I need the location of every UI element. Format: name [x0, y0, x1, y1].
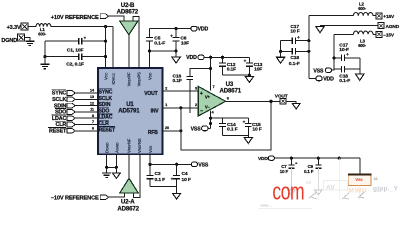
node C17 rail junction [307, 39, 310, 42]
svg-text:−: − [200, 108, 203, 114]
wire INV pin1 to U3 inverting input [163, 107, 199, 109]
svg-text:VDD: VDD [323, 77, 334, 83]
svg-text:16: 16 [374, 177, 378, 181]
wire U2-B output to VREFPF [128, 35, 130, 68]
node C14 rail junction [209, 117, 212, 120]
svg-text:10F: 10F [181, 41, 189, 47]
wire C7 to ground (faint) [290, 168, 292, 190]
svg-text:VDD: VDD [186, 55, 197, 61]
ground (AGND right triangle) [316, 27, 324, 33]
node RFB feedback junction [179, 129, 182, 132]
svg-text:DGND: DGND [104, 142, 109, 153]
wire VOUT pin2 to U3 pin3 [163, 90, 199, 92]
wire VCC vertical [105, 27, 107, 68]
svg-text:DGND: DGND [1, 38, 17, 44]
svg-text:Vss: Vss [355, 177, 363, 182]
watermark faint footer line [258, 208, 312, 210]
ground (C17b/C18b triangle) [356, 74, 365, 80]
pin label LDAC (inside U1) [99, 114, 113, 121]
capacitor C6 [170, 29, 189, 51]
wire C13 to ground [248, 75, 250, 76]
ground (C5/C6 triangle) [172, 57, 181, 63]
wire RESET to U1 [75, 130, 98, 132]
wire to U5 box [359, 158, 361, 174]
svg-text:CLR: CLR [99, 121, 110, 127]
wire C6 to ground [175, 51, 177, 57]
ground (C9 faint) [315, 190, 323, 195]
connector -15V [376, 31, 395, 38]
connector VSS right [313, 68, 331, 75]
wire DGND-AGND tie [107, 166, 117, 168]
wire DGND pin down [106, 154, 108, 173]
pin label SDIN (inside U1) [99, 102, 111, 108]
wire U3 V+ supply [210, 57, 212, 90]
connector +15V [376, 13, 395, 20]
svg-text:U1: U1 [126, 102, 134, 108]
connector VDD top [191, 26, 209, 32]
wire VOUT to ground stub [286, 101, 296, 103]
svg-text:+10V REFERENCE: +10V REFERENCE [51, 15, 99, 21]
wire VSS vertical (right) [333, 34, 335, 69]
svg-text:0.1-F: 0.1-F [154, 41, 165, 47]
capacitor C2 [45, 53, 106, 67]
wire -15V rail to VSS vertical [334, 33, 353, 35]
svg-text:600-: 600- [358, 6, 367, 11]
wire AGND pin down [115, 154, 117, 173]
capacitor C7 [280, 158, 298, 174]
inductor L1 [36, 24, 51, 37]
svg-text:C4: C4 [182, 171, 188, 177]
pin label RESET (inside U1) [99, 127, 117, 134]
svg-text:10 F: 10 F [290, 29, 299, 35]
node C13 bottom junction [248, 74, 251, 77]
node SCLK input [52, 97, 75, 103]
wire VSS rail [150, 163, 191, 165]
wire U5 branch [338, 158, 340, 179]
wire +3.3V to L1 [29, 26, 36, 28]
capacitor C12 [219, 57, 236, 75]
node V+ junction [209, 56, 212, 59]
svg-text:C1, 10F: C1, 10F [67, 47, 84, 53]
svg-text:LDAC: LDAC [99, 115, 113, 121]
node VSS branch junction [209, 122, 212, 125]
watermark faint box [324, 181, 348, 191]
capacitor C18 (+15V pair) [281, 48, 309, 67]
node CLR input [55, 121, 75, 128]
svg-text:gjpp._Y: gjpp._Y [373, 186, 399, 193]
connector -10V REFERENCE [51, 195, 109, 202]
svg-text:VREFPF: VREFPF [126, 72, 131, 87]
svg-text:–15V: –15V [383, 33, 395, 39]
ground (DGND bar) [102, 173, 111, 177]
capacitor C18 (-15V pair) [334, 66, 360, 84]
svg-text:C3: C3 [155, 171, 161, 177]
wire reference to U2-B inverting input [109, 16, 124, 21]
node VSS rail junction [148, 163, 151, 166]
wire C14-C15 top rail [211, 117, 249, 119]
wire CLR to U1 [75, 124, 98, 126]
connector VDD right [316, 76, 334, 83]
svg-text:VSS: VSS [148, 145, 153, 153]
svg-text:RFB: RFB [148, 130, 158, 136]
connector VDD mid [186, 55, 204, 61]
svg-text:0.1 F: 0.1 F [304, 169, 314, 174]
node AGND junction [115, 166, 118, 169]
node LDAC input [51, 115, 75, 122]
inductor L2 [353, 2, 373, 16]
node C9 junction [317, 157, 320, 160]
svg-text:10 F: 10 F [280, 169, 289, 174]
connector +10V REFERENCE [51, 14, 109, 22]
wire C5-C6 bottom rail [149, 50, 176, 52]
capacitor C15 [243, 118, 262, 135]
capacitor C1 [45, 36, 106, 54]
capacitor C5 [146, 29, 165, 68]
wire VSS stub [208, 127, 211, 129]
ground (C4 triangle) [173, 193, 181, 199]
connector VSS lower [191, 162, 209, 169]
svg-text:600-: 600- [38, 32, 47, 37]
svg-text:VREFPS: VREFPS [137, 72, 142, 87]
svg-text:VSS: VSS [198, 163, 209, 169]
op-amp U2-B [117, 2, 139, 35]
svg-text:ʌᴠ: ʌᴠ [306, 180, 312, 186]
svg-text:SCLK: SCLK [99, 96, 113, 102]
wire VREFNS feedback to U2-A noninverting input [134, 154, 141, 197]
svg-text:C18: C18 [290, 55, 299, 61]
node C4 top junction [175, 163, 178, 166]
wire C3-C4 bottom rail [150, 186, 177, 188]
wire C17b/C18b ground leg [359, 58, 361, 74]
pin label SYNC (inside U1) [99, 89, 113, 96]
svg-text:VREFNS: VREFNS [137, 138, 142, 153]
watermark red com text [272, 179, 304, 205]
node C6 bottom junction [175, 49, 178, 52]
pin label CLR (inside U1) [99, 120, 110, 127]
svg-text:U2-A: U2-A [121, 199, 135, 206]
node C1-VCC junction [104, 40, 107, 43]
node C18 left junction [279, 50, 282, 53]
svg-text:V−: V− [205, 104, 211, 109]
pin label SDO (inside U1) [99, 108, 110, 115]
regulator U5 (watermarked box) [348, 174, 372, 185]
node VOUT feedback junction [269, 100, 272, 103]
wire reference to U2-A inverting input [109, 193, 125, 197]
svg-text:RESET: RESET [99, 127, 117, 133]
ground (VOUT triangle) [292, 104, 300, 109]
wire L3 to -15V connector [373, 33, 376, 35]
wire VSS right stub [332, 69, 335, 70]
capacitor C4 [171, 164, 191, 193]
svg-text:VDD: VDD [147, 72, 152, 80]
wire VDD bottom rail [274, 157, 359, 159]
node DGND junction [105, 166, 108, 169]
svg-text:0.1F: 0.1F [173, 78, 182, 84]
capacitor C13 [244, 57, 263, 75]
svg-text:+: + [200, 91, 203, 97]
svg-text:INV: INV [151, 108, 160, 114]
wire U3 output to VOUT connector [226, 100, 281, 102]
svg-text:–10V REFERENCE: –10V REFERENCE [51, 195, 99, 201]
svg-text:AGND: AGND [386, 24, 400, 30]
wire LDAC to U1 [75, 117, 98, 119]
wire C17/C18 ground leg [280, 41, 282, 58]
svg-text:+15V: +15V [383, 14, 395, 20]
svg-text:10-F: 10-F [339, 47, 349, 53]
node C1-C2 ground junction [43, 55, 46, 58]
connector VDD bottom [258, 156, 274, 162]
svg-text:AD8672: AD8672 [117, 9, 139, 16]
svg-text:VSS: VSS [191, 126, 202, 132]
capacitor C14 [219, 118, 237, 135]
capacitor C17 (+15V pair) [281, 24, 309, 44]
svg-text:+3.3V: +3.3V [7, 25, 21, 31]
node VCC junction [104, 25, 107, 28]
svg-text:VSS: VSS [313, 68, 324, 74]
op-amp U3 AD8671 [198, 81, 242, 116]
wire C1/C2 ground leg [44, 41, 46, 64]
connector DGND [1, 34, 24, 44]
node C17b rail junction [332, 56, 335, 59]
wire VSS pin down [149, 154, 151, 175]
node SDIN input [54, 103, 75, 109]
capacitor C3 [147, 171, 166, 187]
wire VDD top rail [149, 28, 191, 30]
connector VSS mid [191, 126, 208, 133]
node SDO input [55, 109, 75, 116]
watermark faint gray symbols [309, 192, 364, 199]
svg-text:0.1F: 0.1F [227, 67, 236, 73]
wire SDO to U1 [75, 111, 98, 113]
svg-text:SYNC: SYNC [52, 91, 67, 97]
ground (C13 triangle) [245, 77, 253, 83]
wire L1 to VCC/IOVCC rail [51, 26, 113, 28]
node C2-VCC junction [104, 55, 107, 58]
svg-text:0.1 F: 0.1 F [227, 127, 238, 133]
svg-text:AD8672: AD8672 [117, 206, 139, 213]
svg-text:ᴡᴡᴡ. ..: ᴡᴡᴡ. .. [260, 204, 272, 208]
svg-text:SDO: SDO [99, 108, 110, 114]
svg-text:AD8671: AD8671 [220, 87, 242, 94]
wire AGND rail [320, 25, 378, 27]
ground (AGND triangle) [113, 173, 121, 178]
wire C9 to ground (faint) [317, 168, 319, 190]
ground (C15 triangle) [244, 138, 252, 144]
node U5 junction [338, 157, 341, 160]
node INV feedback junction [179, 106, 182, 109]
node C6 top junction [175, 27, 178, 30]
capacitor C9 [304, 158, 321, 174]
svg-text:SYNC: SYNC [99, 90, 113, 96]
wire +15V rail to VDD vertical [309, 15, 354, 17]
svg-text:VDD: VDD [258, 156, 268, 162]
ground (DGND bar) [25, 41, 34, 45]
node C7 junction [290, 157, 293, 160]
node C12 junction [221, 56, 224, 59]
node RESET input [48, 128, 75, 135]
svg-text:SCLK: SCLK [52, 97, 66, 103]
ground (C17/C18 triangle) [277, 57, 285, 63]
op-amp U2-A [117, 178, 139, 212]
svg-text:0.1-F: 0.1-F [289, 61, 300, 67]
svg-text:0.1-F: 0.1-F [339, 78, 350, 84]
wire VREFPS feedback to U2-B noninverting input [133, 17, 139, 68]
svg-text:RESET: RESET [49, 129, 67, 135]
wire SYNC to U1 [75, 92, 98, 94]
wire VDD vertical (right) [308, 16, 310, 79]
wire feedback loop INV/RFB to VOUT node [181, 101, 271, 150]
svg-text:AD5791: AD5791 [118, 109, 140, 115]
ground (C7 faint) [288, 190, 296, 195]
wire C12-C13 bottom rail [223, 74, 250, 76]
node C18 rail junction [307, 50, 310, 53]
svg-text:IOVCC: IOVCC [111, 72, 116, 84]
connector AGND [378, 23, 400, 30]
wire VDD mid rail [204, 56, 249, 58]
svg-text:SDIN: SDIN [99, 102, 111, 108]
capacitor C16 [173, 69, 211, 114]
svg-text:V+: V+ [205, 94, 211, 99]
svg-text:VOUT: VOUT [144, 91, 157, 97]
connector +3.3V [7, 23, 29, 31]
node SYNC input [52, 90, 76, 97]
wire RFB pin20 to feedback [163, 130, 181, 132]
svg-text:com: com [272, 179, 304, 205]
wire U3 V- supply [210, 110, 212, 128]
svg-text:10 F: 10 F [252, 127, 261, 133]
wire VDD right stub [309, 77, 316, 79]
wire DGND to ground [25, 38, 30, 42]
svg-text:0.1 F: 0.1 F [155, 177, 166, 183]
wire SDIN to U1 [75, 105, 98, 107]
svg-text:C2, 0.1F: C2, 0.1F [66, 62, 84, 68]
inductor L3 [353, 31, 373, 48]
watermark faint verticals [318, 158, 360, 200]
node C5 bottom junction [148, 49, 151, 52]
node C16 junction [209, 67, 212, 70]
svg-text:VCC: VCC [103, 72, 108, 80]
ground (C1/C2 bar) [40, 64, 49, 68]
svg-text:AGND: AGND [114, 142, 119, 153]
wire SCLK to U1 [75, 98, 98, 100]
wire C14-C15 bottom rail [223, 135, 249, 137]
capacitor C17 (-15V pair) [334, 42, 360, 61]
svg-text:600-: 600- [358, 43, 367, 48]
svg-text:VREFNF: VREFNF [126, 138, 131, 153]
op-amp U1 AD5791 DAC body [98, 68, 163, 154]
wire U2-A output to VREFNF [128, 154, 130, 178]
svg-text:ᴍᴡᴜ: ᴍᴡᴜ [348, 185, 367, 195]
svg-text:10 F: 10 F [182, 177, 191, 183]
svg-text:10F: 10F [254, 67, 262, 73]
wire C15 to ground [247, 136, 249, 138]
pin label SCLK (inside U1) [99, 96, 113, 102]
wire IOVCC vertical [112, 27, 114, 68]
connector VOUT [275, 93, 288, 104]
wire L2 to +15V connector [373, 15, 376, 17]
svg-text:VDD: VDD [198, 27, 209, 33]
